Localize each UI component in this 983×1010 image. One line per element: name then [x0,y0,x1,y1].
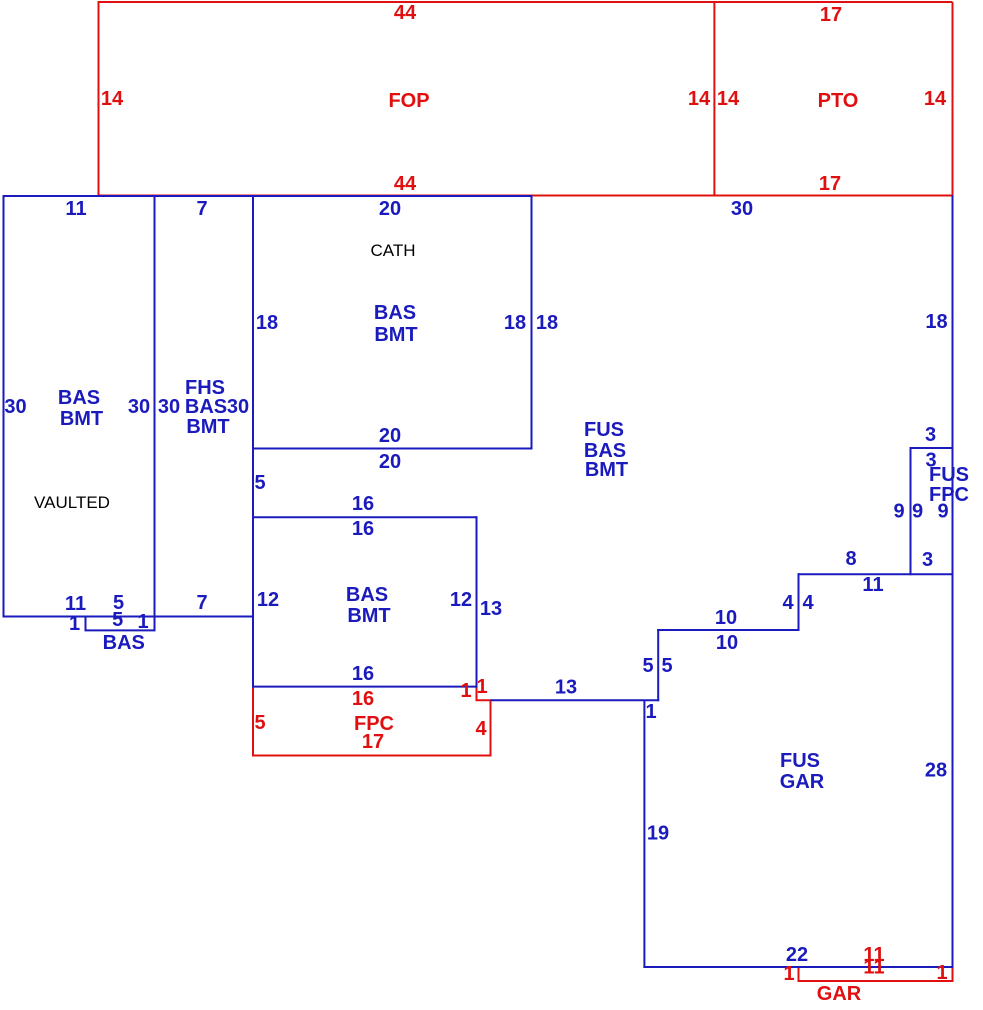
FUS GAR bottom wall [643,966,953,968]
wall x=253 [252,196,254,688]
svg-text:FUS: FUS [929,464,969,486]
svg-text:FUS: FUS [780,750,820,772]
svg-text:9: 9 [937,501,948,523]
svg-text:BMT: BMT [186,416,229,438]
svg-text:11: 11 [65,198,86,220]
svg-text:7: 7 [196,592,207,614]
svg-text:5: 5 [661,655,672,677]
svg-text:BMT: BMT [347,605,390,627]
svg-text:3: 3 [922,549,933,571]
svg-text:14: 14 [101,88,124,110]
svg-text:FUS: FUS [584,419,624,441]
svg-text:30: 30 [4,396,26,418]
svg-text:FOP: FOP [388,90,429,112]
svg-text:BMT: BMT [585,459,628,481]
svg-text:1: 1 [69,613,80,635]
svg-text:GAR: GAR [780,771,825,793]
step wall y=700 [491,699,660,701]
svg-text:5: 5 [112,609,123,631]
svg-text:BMT: BMT [60,408,103,430]
svg-text:CATH: CATH [370,241,415,260]
svg-text:12: 12 [257,589,279,611]
left wall [3,195,5,617]
svg-text:13: 13 [480,598,502,620]
FOP/PTO bottom wall [98,195,953,197]
svg-text:VAULTED: VAULTED [34,493,110,512]
svg-text:4: 4 [475,718,487,740]
svg-text:BAS: BAS [103,632,145,654]
svg-text:1: 1 [645,701,656,723]
step wall y=574 [798,573,953,575]
svg-text:11: 11 [65,593,86,615]
BAS bump left wall [85,616,87,631]
svg-text:BAS: BAS [374,302,416,324]
step wall x=658 [657,629,659,701]
svg-text:18: 18 [504,312,526,334]
FUS FPC left wall [910,447,912,575]
svg-text:BMT: BMT [374,324,417,346]
svg-text:1: 1 [460,680,471,702]
svg-text:16: 16 [352,518,374,540]
main top wall [3,195,532,197]
mid BAS BMT right wall [476,516,478,687]
svg-text:28: 28 [925,760,947,782]
svg-text:1: 1 [936,962,947,984]
svg-text:18: 18 [256,312,278,334]
svg-text:14: 14 [688,88,711,110]
svg-text:17: 17 [362,731,384,753]
svg-text:16: 16 [352,663,374,685]
svg-text:BAS: BAS [346,584,388,606]
svg-text:44: 44 [394,173,417,195]
svg-text:10: 10 [715,607,737,629]
step wall x=798 [798,573,800,631]
svg-text:44: 44 [394,2,417,24]
GAR stoop outline [799,967,953,981]
mid BAS BMT top wall [252,516,478,518]
FOP/PTO divider wall [713,2,715,195]
svg-text:20: 20 [379,425,401,447]
BAS bump right wall [154,616,156,631]
svg-text:3: 3 [925,424,936,446]
svg-text:5: 5 [642,655,653,677]
svg-text:1: 1 [783,963,794,985]
svg-text:1: 1 [137,611,148,633]
svg-text:1: 1 [476,676,487,698]
svg-text:12: 12 [450,589,472,611]
svg-text:14: 14 [717,88,740,110]
right wall [952,195,954,968]
svg-text:GAR: GAR [817,983,862,1005]
svg-text:16: 16 [352,493,374,515]
svg-text:7: 7 [196,198,207,220]
svg-text:11: 11 [863,957,884,979]
svg-text:13: 13 [555,677,577,699]
svg-text:18: 18 [925,311,947,333]
svg-text:19: 19 [647,823,669,845]
wall x=154 [154,196,156,616]
svg-text:14: 14 [924,88,947,110]
CATH bottom wall [252,448,533,450]
svg-text:30: 30 [158,396,180,418]
svg-text:17: 17 [820,4,842,26]
svg-text:4: 4 [782,592,794,614]
FOP porch outline [99,2,953,196]
mid BAS BMT bottom wall [252,686,478,688]
svg-text:8: 8 [845,548,856,570]
svg-text:17: 17 [819,173,841,195]
svg-text:20: 20 [379,451,401,473]
svg-text:FPC: FPC [929,484,969,506]
svg-text:20: 20 [379,198,401,220]
svg-text:30: 30 [731,198,753,220]
svg-text:11: 11 [862,574,883,596]
FPC patio outline [253,687,491,756]
svg-text:5: 5 [254,712,265,734]
svg-text:9: 9 [912,501,923,523]
left area bottom wall [3,616,255,618]
svg-text:18: 18 [536,312,558,334]
BAS bump bottom wall [85,629,156,631]
svg-text:PTO: PTO [818,90,859,112]
CATH right wall [531,195,533,449]
svg-text:30: 30 [227,396,249,418]
svg-text:5: 5 [254,472,265,494]
PTO right wall [952,2,954,196]
svg-text:9: 9 [893,501,904,523]
step wall y=630 [657,629,799,631]
svg-text:BAS: BAS [185,396,227,418]
svg-text:16: 16 [352,688,374,710]
FUS GAR left wall [643,700,645,968]
svg-text:4: 4 [802,592,814,614]
FUS FPC top wall [910,447,953,449]
svg-text:BAS: BAS [58,387,100,409]
svg-text:30: 30 [128,396,150,418]
svg-text:10: 10 [716,632,738,654]
